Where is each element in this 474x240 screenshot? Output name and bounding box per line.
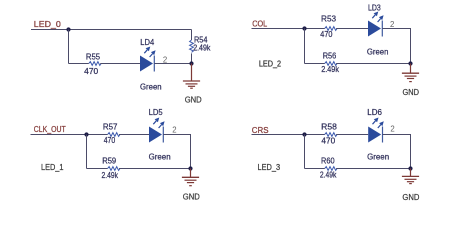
junction dot node LED_0 <box>66 27 70 31</box>
svg-text:LED_2: LED_2 <box>259 60 281 69</box>
resistor R56 <box>321 51 339 74</box>
wire R58 to LD6 anode <box>336 134 368 136</box>
wire net CLK_OUT <box>31 134 108 136</box>
wire LD6 cathode to right corner <box>383 135 411 169</box>
LED LD5 <box>149 107 171 162</box>
svg-text:470: 470 <box>84 66 98 76</box>
svg-text:LED_3: LED_3 <box>258 163 281 172</box>
wire to R55 <box>69 63 89 65</box>
wire LD4 cathode to node <box>154 63 191 65</box>
svg-text:R55: R55 <box>86 52 101 62</box>
svg-text:2: 2 <box>390 125 394 134</box>
resistor R57 <box>103 122 120 146</box>
wire R60 to right node <box>336 168 410 170</box>
ground GND (circuit 1) <box>183 81 202 105</box>
wire branch to R56 <box>305 63 325 65</box>
wire R56 to right node <box>336 63 410 65</box>
junction dot node under R54 <box>189 61 193 65</box>
junction dot node CLK_OUT <box>84 132 88 136</box>
svg-text:GND: GND <box>402 87 419 97</box>
svg-text:Green: Green <box>140 82 162 92</box>
ground GND (circuit 2) <box>402 73 419 97</box>
LED LD3 <box>367 2 389 56</box>
svg-text:2.49k: 2.49k <box>193 43 211 53</box>
resistor R53 <box>320 14 337 40</box>
svg-text:R57: R57 <box>103 122 118 132</box>
svg-text:COL: COL <box>252 18 267 28</box>
svg-text:LED_1: LED_1 <box>41 163 64 172</box>
resistor R59 <box>102 155 120 180</box>
resistor R55 <box>84 52 101 76</box>
junction dot node under LD5 <box>188 166 192 170</box>
wire LD5 cathode to right corner <box>163 135 190 169</box>
svg-text:GND: GND <box>185 95 202 105</box>
svg-text:GND: GND <box>402 192 419 202</box>
svg-text:R53: R53 <box>321 14 336 24</box>
wire net LED_0 horizontal top <box>31 29 192 31</box>
wire node to ground <box>410 64 412 74</box>
svg-text:LD3: LD3 <box>368 2 381 12</box>
svg-text:R56: R56 <box>323 51 337 61</box>
svg-text:2.49k: 2.49k <box>102 170 119 180</box>
wire vertical branch from CRS node <box>304 135 306 169</box>
svg-text:LD4: LD4 <box>140 37 154 47</box>
svg-text:LD5: LD5 <box>149 107 163 117</box>
svg-text:470: 470 <box>321 135 335 145</box>
svg-text:GND: GND <box>183 192 200 202</box>
wire node to ground <box>410 169 412 177</box>
wire vertical branch from CLK_OUT node <box>86 135 88 169</box>
svg-text:2.49k: 2.49k <box>321 64 339 74</box>
resistor R60 <box>320 155 337 179</box>
svg-text:2.49k: 2.49k <box>320 170 337 180</box>
svg-text:2: 2 <box>390 20 394 29</box>
wire net COL <box>252 28 325 30</box>
wire LD3 cathode to right corner <box>382 29 410 64</box>
svg-text:R59: R59 <box>102 155 116 165</box>
wire node to ground <box>190 169 192 178</box>
junction dot node COL <box>302 26 306 30</box>
wire R53 to LD3 anode <box>336 28 368 30</box>
wire net CRS <box>252 134 325 136</box>
svg-text:470: 470 <box>320 29 333 39</box>
wire branch to R60 <box>305 168 325 170</box>
junction dot node under LD6 <box>408 166 412 170</box>
wire vertical branch from COL node <box>304 29 306 64</box>
wire node to ground <box>191 64 193 82</box>
svg-text:Green: Green <box>367 152 389 162</box>
svg-text:470: 470 <box>104 135 116 145</box>
LED LD6 <box>367 107 389 162</box>
resistor R54 <box>190 30 212 64</box>
wire branch to R59 <box>87 168 108 170</box>
ground GND (circuit 3) <box>182 177 200 201</box>
svg-text:CLK_OUT: CLK_OUT <box>34 124 67 134</box>
LED LD4 <box>140 37 162 92</box>
ground GND (circuit 4) <box>402 176 420 202</box>
svg-text:CRS: CRS <box>252 125 269 135</box>
svg-text:2: 2 <box>172 126 176 135</box>
junction dot node CRS <box>302 132 306 136</box>
wire R57 to LD5 anode <box>119 134 149 136</box>
wire R59 to right node <box>119 168 191 170</box>
resistor R58 <box>321 121 337 145</box>
svg-text:Green: Green <box>367 47 389 57</box>
wire vertical drop from LED_0 node <box>68 30 70 64</box>
wire R55 to LD4 anode <box>100 63 140 65</box>
svg-text:LD6: LD6 <box>367 107 382 117</box>
svg-text:Green: Green <box>149 152 171 162</box>
svg-text:R58: R58 <box>321 121 337 131</box>
junction dot node under LD3 <box>408 61 412 65</box>
svg-text:R60: R60 <box>321 155 335 165</box>
svg-text:LED_0: LED_0 <box>34 19 61 29</box>
